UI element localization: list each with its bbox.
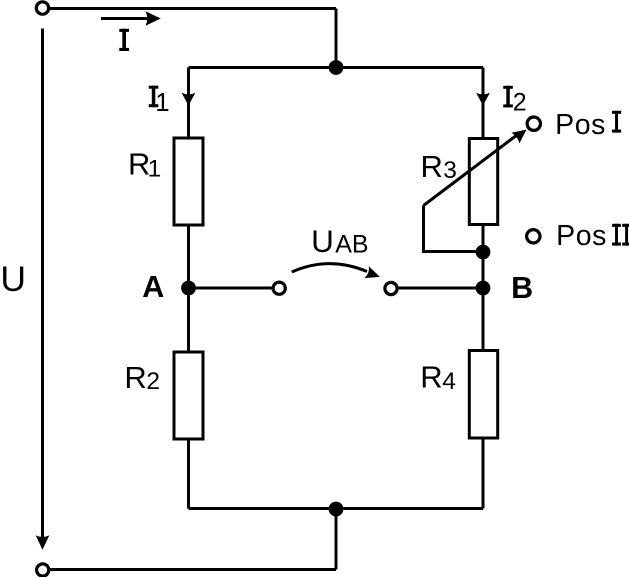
svg-text:B: B: [511, 271, 533, 305]
wire right middle: [482, 225, 485, 351]
wire bridge bottom: [189, 507, 484, 510]
svg-text:4: 4: [442, 368, 456, 395]
voltage arrow UAB: [292, 264, 367, 272]
svg-text:Pos: Pos: [556, 220, 607, 252]
svg-text:R: R: [420, 360, 442, 395]
terminal bottom left: [37, 564, 49, 576]
resistor R1: [174, 138, 203, 225]
wire top horizontal: [44, 7, 336, 10]
terminal top left: [36, 2, 48, 14]
R3 wiper arrowhead: [511, 130, 526, 144]
voltage arrow U: [41, 29, 44, 539]
wire left upper: [187, 68, 190, 139]
wire top drop: [335, 9, 338, 68]
svg-text:3: 3: [443, 157, 457, 184]
contact Pos II: [527, 230, 540, 243]
node junction top: [329, 60, 344, 75]
arrow I2 head: [476, 93, 490, 106]
R3 wiper arrow line: [424, 135, 518, 206]
current arrow I: [101, 17, 148, 20]
wire node A to switch contact: [189, 287, 273, 290]
label I2: [503, 86, 513, 89]
svg-text:Pos: Pos: [555, 109, 606, 141]
wire right upper: [482, 68, 485, 139]
wire left middle: [187, 225, 190, 352]
wire bridge top: [189, 66, 484, 69]
switch contact right: [385, 282, 397, 294]
label I1: [149, 86, 159, 89]
svg-text:2: 2: [146, 368, 160, 395]
resistor R3: [469, 139, 497, 225]
svg-text:R: R: [124, 360, 146, 395]
svg-text:U: U: [311, 223, 334, 259]
contact Pos I: [527, 117, 540, 130]
label I: [119, 29, 129, 32]
wire R3 wiper tap: [424, 206, 480, 252]
node junction bottom: [329, 502, 344, 517]
arrow I1 head: [182, 93, 196, 106]
node A: [181, 281, 196, 296]
svg-text:AB: AB: [335, 230, 368, 258]
node B: [476, 281, 491, 296]
wire bottom horizontal: [44, 568, 336, 571]
wire bottom drop: [335, 509, 338, 570]
wire right lower: [482, 438, 485, 509]
svg-text:R: R: [421, 149, 443, 184]
svg-text:1: 1: [155, 89, 169, 117]
resistor R4: [469, 351, 497, 439]
resistor R2: [174, 352, 203, 439]
wire left lower: [187, 439, 190, 509]
svg-text:2: 2: [513, 89, 527, 117]
wire switch contact to node B: [398, 287, 483, 290]
switch contact left: [273, 282, 285, 294]
svg-text:A: A: [142, 270, 164, 304]
svg-text:1: 1: [148, 156, 162, 183]
node R3 tap junction: [476, 245, 491, 260]
svg-text:U: U: [0, 259, 26, 299]
